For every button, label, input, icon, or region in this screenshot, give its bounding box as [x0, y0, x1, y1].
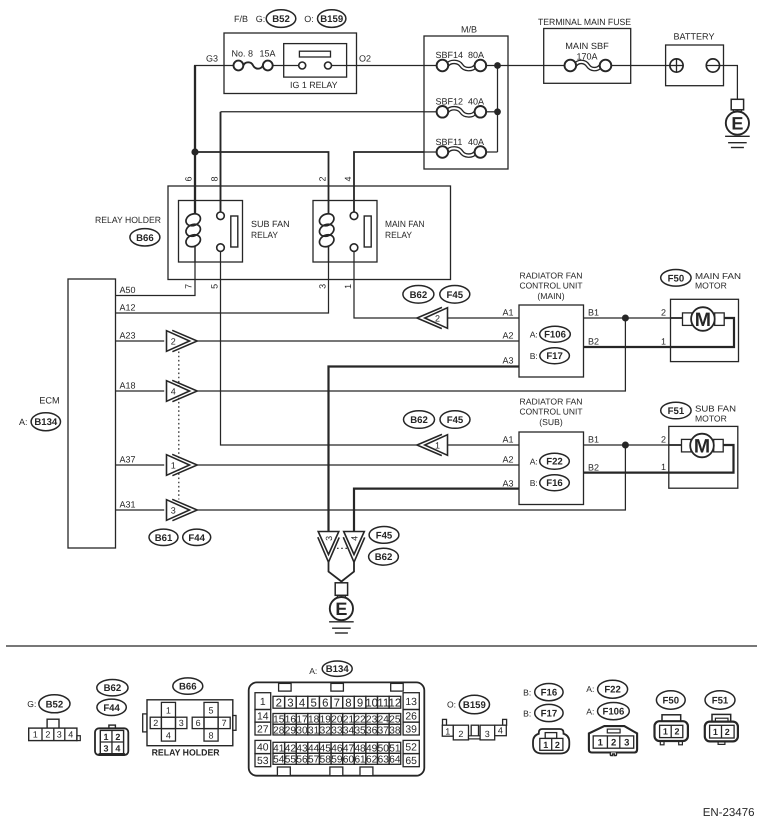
svg-text:F17: F17 — [546, 351, 563, 362]
svg-text:B62: B62 — [375, 552, 393, 563]
dotted link between ground arrows — [337, 547, 348, 549]
svg-text:M: M — [694, 435, 710, 457]
svg-text:61: 61 — [354, 755, 366, 766]
connector B134 (oval, bottom) — [322, 661, 352, 676]
svg-text:10: 10 — [365, 697, 378, 709]
svg-text:F17: F17 — [541, 708, 558, 719]
svg-text:B52: B52 — [46, 699, 64, 710]
radiator fan control unit (sub) outline — [519, 432, 584, 505]
svg-text:33: 33 — [331, 725, 343, 736]
in-line connector arrow 2 (B62/F45) — [167, 330, 198, 351]
connector F44 (oval, bottom) — [97, 699, 126, 715]
main fan relay coil — [318, 212, 336, 228]
svg-text:F22: F22 — [546, 457, 563, 468]
svg-text:6: 6 — [196, 718, 201, 728]
svg-text:(SUB): (SUB) — [539, 417, 563, 427]
svg-text:RADIATOR FAN: RADIATOR FAN — [520, 271, 583, 281]
svg-text:M: M — [695, 309, 711, 331]
svg-text:14: 14 — [257, 712, 269, 723]
svg-text:MOTOR: MOTOR — [695, 281, 727, 291]
connector F45 (oval, ground) — [369, 527, 399, 544]
wire sub A3 to ground arrow 4 — [354, 489, 519, 534]
junction dot G3/coil branch — [191, 148, 198, 155]
main fan relay contact — [350, 212, 358, 220]
connector F106 (oval) — [540, 326, 571, 342]
connector B134 pinout — [249, 682, 425, 775]
svg-text:G:: G: — [27, 699, 36, 709]
svg-text:1: 1 — [543, 740, 548, 750]
wire A23 to connector arrow 2 — [116, 340, 165, 342]
svg-text:B52: B52 — [272, 14, 290, 25]
wire M/B edge to SBF11 — [424, 151, 438, 153]
wire sub relay pin 5 to sub unit A1 — [221, 251, 418, 445]
wire arrow 1 to sub unit A2 — [197, 464, 519, 466]
svg-text:2: 2 — [45, 730, 50, 740]
svg-text:BATTERY: BATTERY — [674, 32, 715, 42]
svg-text:4: 4 — [349, 536, 359, 541]
svg-text:54: 54 — [273, 755, 285, 766]
wire battery to ground — [706, 66, 737, 100]
svg-text:1: 1 — [663, 727, 668, 737]
fuse MAIN SBF 170A — [544, 65, 566, 67]
in-line connector arrow 3 (ground, B62/F45) — [318, 532, 339, 563]
svg-text:A:: A: — [586, 707, 594, 717]
svg-text:A1: A1 — [502, 308, 513, 318]
svg-text:CONTROL UNIT: CONTROL UNIT — [520, 281, 584, 291]
svg-text:B134: B134 — [326, 664, 350, 675]
ground E (circuit) — [335, 583, 347, 596]
svg-text:3: 3 — [318, 284, 328, 289]
svg-text:A2: A2 — [502, 331, 513, 341]
wire M/B edge to SBF12 — [424, 111, 438, 113]
svg-text:1: 1 — [171, 460, 176, 470]
svg-text:A:: A: — [586, 684, 594, 694]
wire coil branch to main fan relay pin 2 — [195, 152, 329, 214]
main motor return loop — [671, 318, 735, 347]
svg-text:64: 64 — [389, 755, 401, 766]
svg-text:40: 40 — [257, 743, 269, 754]
svg-text:B2: B2 — [588, 462, 599, 472]
wire A18 to connector arrow 4 — [116, 390, 165, 392]
wire A31 to connector arrow 3 — [116, 509, 165, 511]
connector F45 (oval, main) — [440, 286, 470, 304]
svg-text:1: 1 — [661, 462, 666, 472]
svg-text:7: 7 — [334, 697, 340, 709]
svg-text:2: 2 — [661, 308, 666, 318]
svg-text:B2: B2 — [588, 337, 599, 347]
svg-text:F45: F45 — [376, 530, 393, 541]
wire arrow 2 to main unit A2 — [197, 340, 519, 342]
connector B159 (oval, bottom) — [459, 695, 489, 714]
wire main relay pin 1 to main unit A1 — [354, 251, 417, 318]
svg-text:8: 8 — [209, 176, 219, 181]
svg-text:9: 9 — [357, 697, 363, 709]
svg-text:B159: B159 — [463, 700, 486, 711]
connector B61 (oval) — [149, 529, 178, 545]
in-line connector arrow 3 (B62/F45) — [167, 499, 198, 520]
connector B62 (oval, ground) — [369, 548, 399, 565]
ECM outline — [68, 279, 116, 548]
sub fan relay contact — [217, 212, 225, 220]
svg-text:65: 65 — [405, 756, 417, 767]
svg-text:MAIN SBF: MAIN SBF — [565, 41, 609, 51]
svg-text:2: 2 — [276, 697, 282, 709]
svg-text:40A: 40A — [468, 137, 484, 147]
relay SUB FAN RELAY box — [179, 201, 243, 263]
svg-text:SBF11: SBF11 — [436, 137, 463, 147]
svg-text:32: 32 — [320, 725, 332, 736]
battery positive terminal — [670, 59, 683, 72]
svg-text:F16: F16 — [541, 688, 558, 699]
svg-text:A3: A3 — [502, 478, 513, 488]
svg-text:F106: F106 — [602, 707, 624, 718]
connector F50 (oval) — [661, 270, 691, 287]
main fan motor M symbol — [683, 313, 693, 326]
svg-text:E: E — [731, 114, 743, 134]
wire O2 out to M/B — [332, 65, 438, 67]
fuse box F/B outline — [224, 33, 357, 94]
connector F22 (oval, bottom) — [598, 680, 628, 698]
svg-text:1: 1 — [166, 705, 171, 715]
svg-text:SBF12: SBF12 — [436, 97, 464, 107]
junction dot M/B bus top — [494, 62, 501, 69]
svg-text:RELAY: RELAY — [385, 230, 412, 240]
connector F17 pinout — [533, 729, 569, 754]
svg-text:8: 8 — [345, 697, 351, 709]
wire A50 to sub relay pin 7 — [116, 262, 196, 296]
relay holder pinout — [143, 700, 236, 746]
connector B66 (oval) — [130, 229, 160, 246]
svg-text:3: 3 — [171, 505, 176, 515]
svg-text:6: 6 — [322, 697, 328, 709]
svg-text:A31: A31 — [120, 500, 136, 510]
svg-text:EN-23476: EN-23476 — [703, 807, 755, 819]
connector F50 pinout — [655, 715, 688, 745]
svg-text:2: 2 — [115, 732, 120, 742]
svg-text:15A: 15A — [260, 48, 276, 58]
connector F106 pinout — [589, 726, 637, 756]
connector F51 (oval, bottom) — [705, 691, 735, 709]
connector B52 pinout — [29, 719, 81, 740]
relay IG 1 RELAY — [284, 44, 347, 78]
wire main B1 to motor pin 2 — [584, 317, 671, 319]
svg-text:12: 12 — [389, 697, 402, 709]
svg-text:RADIATOR FAN: RADIATOR FAN — [520, 397, 583, 407]
junction dot sub B1 — [622, 442, 629, 449]
wire G3 feed (IG1) — [194, 65, 234, 67]
svg-text:MOTOR: MOTOR — [695, 413, 727, 423]
svg-text:26: 26 — [405, 712, 417, 723]
svg-text:1: 1 — [598, 738, 604, 749]
fuse box M/B outline — [424, 36, 508, 169]
svg-text:35: 35 — [354, 725, 366, 736]
svg-text:4: 4 — [166, 731, 171, 741]
svg-text:F44: F44 — [188, 533, 205, 544]
svg-text:30: 30 — [296, 725, 308, 736]
wire F/B internal: fuse to IG1 relay — [273, 65, 299, 67]
svg-text:2: 2 — [171, 336, 176, 346]
wire SBF11 to main fan relay pin 4 — [354, 152, 424, 212]
svg-text:A:: A: — [530, 457, 538, 467]
svg-text:F16: F16 — [546, 478, 563, 489]
svg-text:40A: 40A — [468, 97, 484, 107]
svg-text:No. 8: No. 8 — [232, 48, 254, 58]
svg-text:7: 7 — [222, 718, 227, 728]
connector B66 (oval, bottom) — [173, 678, 203, 694]
svg-text:2: 2 — [555, 740, 560, 750]
in-line connector arrow 2 (to main unit A1) — [417, 307, 448, 328]
junction dot main B1 — [622, 315, 629, 322]
sub fan relay coil — [184, 212, 202, 228]
svg-text:G3: G3 — [206, 54, 218, 64]
svg-text:80A: 80A — [468, 50, 484, 60]
in-line connector arrow 4 (B62/F45) — [167, 380, 198, 401]
svg-text:39: 39 — [405, 724, 417, 735]
svg-text:E: E — [335, 599, 347, 619]
svg-text:O:: O: — [304, 14, 314, 24]
wire main B2 to motor pin 1 — [584, 346, 671, 348]
svg-text:3: 3 — [485, 729, 490, 739]
svg-text:59: 59 — [331, 755, 343, 766]
in-line connector arrow 1 (to sub unit A1) — [417, 434, 448, 455]
svg-text:28: 28 — [273, 725, 285, 736]
svg-text:IG 1 RELAY: IG 1 RELAY — [290, 80, 338, 90]
terminal main fuse outline — [544, 29, 631, 84]
connector F17 (oval) — [540, 348, 570, 364]
svg-text:B62: B62 — [104, 683, 122, 694]
svg-text:RELAY HOLDER: RELAY HOLDER — [152, 748, 220, 758]
svg-text:B62: B62 — [410, 415, 428, 426]
svg-text:B:: B: — [523, 688, 531, 698]
svg-text:4: 4 — [171, 386, 176, 396]
svg-text:B:: B: — [523, 709, 531, 719]
svg-text:5: 5 — [208, 705, 213, 715]
svg-text:B62: B62 — [410, 290, 428, 301]
svg-text:1: 1 — [33, 730, 38, 740]
svg-text:52: 52 — [405, 743, 417, 754]
svg-text:O:: O: — [447, 699, 456, 709]
svg-text:2: 2 — [611, 738, 616, 749]
svg-text:SBF14: SBF14 — [436, 50, 464, 60]
svg-text:3: 3 — [624, 738, 629, 749]
svg-text:37: 37 — [378, 725, 390, 736]
battery outline — [666, 45, 724, 86]
ground E (battery) — [731, 99, 743, 110]
svg-text:2: 2 — [458, 729, 463, 739]
svg-text:A:: A: — [309, 666, 317, 676]
connector F45 (oval, sub) — [440, 411, 470, 429]
connector B52 (oval, bottom) — [39, 695, 70, 713]
svg-text:11: 11 — [377, 697, 389, 709]
svg-text:F45: F45 — [447, 290, 464, 301]
svg-text:4: 4 — [68, 730, 73, 740]
junction dot M/B bus mid — [494, 108, 501, 115]
sub motor return loop — [669, 445, 734, 473]
connector F16 (oval, bottom) — [535, 684, 563, 701]
svg-text:6: 6 — [184, 176, 194, 181]
svg-text:2: 2 — [153, 718, 158, 728]
sub fan motor outline — [669, 426, 738, 488]
svg-text:MAIN FAN: MAIN FAN — [385, 219, 425, 229]
svg-text:B1: B1 — [588, 308, 599, 318]
connector F50 (oval, bottom) — [656, 691, 685, 709]
svg-text:7: 7 — [184, 284, 194, 289]
wire A37 to connector arrow 1 — [116, 464, 165, 466]
svg-text:1: 1 — [260, 697, 266, 708]
svg-text:B61: B61 — [155, 533, 173, 544]
connector B134 (ECM oval) — [31, 413, 60, 431]
svg-text:57: 57 — [308, 755, 320, 766]
svg-text:F51: F51 — [668, 406, 685, 417]
svg-text:3: 3 — [103, 744, 108, 754]
svg-text:A3: A3 — [502, 356, 513, 366]
connector F106 (oval, bottom) — [598, 703, 630, 720]
svg-text:(MAIN): (MAIN) — [537, 291, 564, 301]
wire sub B2 to motor pin 1 — [584, 472, 669, 474]
connector B159 (top oval) — [318, 10, 346, 28]
main fan motor outline — [671, 299, 739, 361]
connector B62 (oval, main) — [403, 286, 434, 304]
svg-text:2: 2 — [661, 435, 666, 445]
svg-text:3: 3 — [179, 718, 184, 728]
svg-text:O2: O2 — [359, 54, 371, 64]
connector F44 (oval) — [183, 529, 211, 545]
wire SBF12 to sub fan relay pin 8 — [221, 111, 425, 113]
svg-text:58: 58 — [320, 755, 332, 766]
svg-text:B66: B66 — [179, 682, 197, 693]
svg-text:53: 53 — [257, 756, 269, 767]
svg-text:SUB FAN: SUB FAN — [251, 219, 290, 229]
svg-text:TERMINAL MAIN FUSE: TERMINAL MAIN FUSE — [538, 17, 631, 27]
svg-text:A12: A12 — [120, 303, 136, 313]
svg-text:4: 4 — [343, 176, 353, 181]
svg-text:B:: B: — [530, 351, 538, 361]
connector B62 (oval, sub) — [404, 411, 435, 429]
wire A12 to main relay pin 3 — [116, 262, 329, 313]
svg-text:62: 62 — [366, 755, 378, 766]
svg-text:56: 56 — [296, 755, 308, 766]
svg-text:4: 4 — [498, 726, 503, 736]
svg-text:31: 31 — [308, 725, 320, 736]
svg-text:29: 29 — [285, 725, 297, 736]
svg-text:3: 3 — [287, 697, 293, 709]
connector F51 pinout — [705, 714, 738, 744]
svg-text:G:: G: — [256, 14, 266, 24]
svg-text:F45: F45 — [447, 415, 464, 426]
connector B159 pinout — [442, 719, 506, 740]
svg-text:M/B: M/B — [461, 25, 477, 35]
svg-text:ECM: ECM — [39, 396, 59, 406]
svg-text:F/B: F/B — [234, 14, 248, 24]
svg-text:B134: B134 — [34, 417, 58, 428]
connector F22 (oval) — [540, 453, 570, 469]
svg-text:A37: A37 — [120, 455, 136, 465]
wire main A3 to ground arrow 3 — [329, 367, 520, 534]
svg-text:34: 34 — [343, 725, 355, 736]
svg-text:2: 2 — [674, 727, 679, 737]
wire TMF to battery — [631, 65, 670, 67]
svg-text:3: 3 — [324, 536, 334, 541]
svg-text:A18: A18 — [120, 381, 136, 391]
svg-text:5: 5 — [209, 284, 219, 289]
svg-text:F106: F106 — [544, 330, 566, 341]
relay holder outline — [168, 186, 451, 280]
svg-text:4: 4 — [115, 744, 120, 754]
svg-text:63: 63 — [378, 755, 390, 766]
connector F16 (oval) — [540, 475, 570, 491]
sub fan motor M symbol — [682, 439, 692, 452]
svg-text:A2: A2 — [502, 455, 513, 465]
svg-text:A:: A: — [530, 330, 538, 340]
svg-text:1: 1 — [445, 727, 450, 737]
svg-text:B66: B66 — [136, 233, 154, 244]
svg-text:38: 38 — [389, 725, 401, 736]
svg-text:F44: F44 — [103, 703, 120, 714]
M/B internal bus — [485, 65, 543, 67]
relay MAIN FAN RELAY box — [313, 201, 377, 263]
svg-text:1: 1 — [661, 337, 666, 347]
separator line — [6, 645, 757, 647]
svg-text:5: 5 — [310, 697, 316, 709]
svg-text:1: 1 — [343, 284, 353, 289]
svg-text:13: 13 — [405, 697, 417, 708]
svg-text:MAIN FAN: MAIN FAN — [695, 271, 741, 281]
svg-text:A50: A50 — [120, 285, 136, 295]
svg-text:A1: A1 — [502, 435, 513, 445]
svg-text:A23: A23 — [120, 331, 136, 341]
connector F17 (oval, bottom) — [535, 704, 563, 721]
svg-text:F51: F51 — [712, 695, 729, 706]
svg-text:60: 60 — [343, 755, 355, 766]
svg-text:B1: B1 — [588, 435, 599, 445]
wire arrow 3 to sub fan B1 junction — [197, 445, 625, 510]
connector B52 (top oval) — [266, 10, 296, 28]
battery negative terminal — [706, 59, 719, 72]
svg-text:F22: F22 — [604, 685, 621, 696]
svg-text:F50: F50 — [668, 273, 685, 284]
connector F51 (oval) — [661, 402, 691, 419]
svg-text:CONTROL UNIT: CONTROL UNIT — [520, 407, 584, 417]
svg-text:2: 2 — [318, 176, 328, 181]
svg-text:F50: F50 — [663, 695, 680, 706]
svg-text:SUB FAN: SUB FAN — [695, 404, 736, 414]
svg-text:4: 4 — [299, 697, 305, 709]
svg-text:2: 2 — [725, 727, 730, 737]
svg-text:1: 1 — [713, 727, 718, 737]
in-line connector arrow 1 (B62/F45) — [167, 454, 198, 475]
dotted link between ECM-side arrows — [178, 352, 180, 500]
svg-text:1: 1 — [103, 732, 108, 742]
svg-text:55: 55 — [285, 755, 297, 766]
in-line connector arrow 4 (ground, B62/F45) — [343, 532, 364, 563]
svg-text:RELAY: RELAY — [251, 230, 278, 240]
svg-text:27: 27 — [257, 724, 269, 735]
svg-text:3: 3 — [57, 730, 62, 740]
svg-text:2: 2 — [435, 313, 440, 323]
connector B62 (oval, bottom) — [97, 680, 128, 696]
svg-text:36: 36 — [366, 725, 378, 736]
svg-text:B159: B159 — [320, 14, 343, 25]
ground merge wires — [329, 562, 342, 581]
svg-text:1: 1 — [435, 440, 440, 450]
svg-text:RELAY HOLDER: RELAY HOLDER — [95, 215, 161, 225]
wire sub B1 to motor pin 2 — [584, 444, 669, 446]
svg-text:B:: B: — [530, 478, 538, 488]
radiator fan control unit (main) outline — [519, 305, 584, 377]
wire arrow 4 to main fan B1 junction — [197, 318, 625, 391]
svg-text:A:: A: — [19, 417, 28, 427]
connector F44 pinout — [95, 725, 128, 755]
